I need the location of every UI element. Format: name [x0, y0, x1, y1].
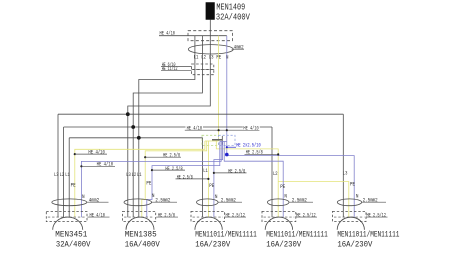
supply block Q0 MEN1409 [206, 3, 215, 20]
svg-text:MEN11011/MEN11111: MEN11011/MEN11111 [337, 231, 399, 240]
svg-text:L1: L1 [65, 172, 70, 178]
svg-text:L1: L1 [137, 172, 142, 178]
cable ellipse outlet2 [124, 199, 152, 206]
socket box divider outlet1 [48, 216, 86, 218]
svg-text:HE 2.5/12: HE 2.5/12 [296, 212, 316, 218]
svg-text:HE 2.5/8: HE 2.5/8 [228, 168, 245, 174]
socket arc outlet1 [53, 217, 83, 230]
bus L3 (top distribution line) [58, 113, 343, 115]
svg-text:MEN3451: MEN3451 [55, 231, 87, 240]
svg-text:HE 4/10: HE 4/10 [243, 125, 258, 131]
wire N to outlet3 (blue) [214, 142, 223, 218]
svg-text:L3: L3 [209, 54, 214, 60]
junction node bus3/L1 [137, 136, 141, 140]
wire bus1 to outlet5 L3 [342, 114, 344, 217]
wire N to outlet4 (blue) [224, 142, 283, 218]
label HE 4/10 (N riser) [243, 125, 260, 130]
svg-text:PE: PE [71, 183, 76, 189]
socket box outlet1 (dashed) [46, 211, 87, 221]
svg-text:L1: L1 [194, 54, 199, 60]
svg-text:MEN11011/MEN11111: MEN11011/MEN11111 [266, 231, 328, 240]
wire bus1 to outlet1 L3 [57, 114, 59, 217]
cable ellipse 4mm2 feeder [188, 45, 233, 54]
svg-text:N: N [215, 194, 218, 200]
wire bus3 to outlet3 L1 [202, 138, 204, 218]
wire supply drop [209, 20, 211, 36]
svg-text:PE: PE [350, 181, 355, 187]
terminal bar [212, 139, 222, 141]
svg-text:HE 2.5/8: HE 2.5/8 [246, 150, 263, 156]
svg-text:16A/230V: 16A/230V [195, 241, 230, 250]
wire L1 phase (staircase to bus3 and outlet2) [139, 36, 195, 218]
svg-text:HE 2.5/8: HE 2.5/8 [177, 174, 193, 180]
svg-text:32A/400V: 32A/400V [56, 241, 91, 250]
PE block internal connector (yellow) [205, 140, 219, 142]
socket arc outlet3 [195, 217, 222, 230]
svg-text:16A/400V: 16A/400V [125, 241, 160, 250]
label HE 2.5/8 (outlet5 feed) with leader [245, 150, 264, 154]
cable ellipse outlet3 [197, 199, 219, 206]
socket arc outlet4 [265, 217, 292, 230]
svg-text:L2: L2 [132, 172, 137, 178]
svg-text:L2: L2 [273, 171, 278, 177]
svg-text:N: N [356, 193, 359, 199]
terminal block wire stub [221, 136, 223, 145]
svg-text:16A/230V: 16A/230V [266, 241, 301, 250]
socket box outlet2 (dashed) [123, 211, 156, 221]
svg-text:PE: PE [146, 181, 151, 187]
svg-text:HE 2.5/8: HE 2.5/8 [158, 212, 175, 218]
label HE 2x2.5/10 (blue) with leader [226, 146, 228, 148]
svg-text:HE 4/10: HE 4/10 [90, 212, 106, 218]
label HE 4/10 (PE riser) [186, 125, 204, 130]
svg-text:MEN11011/MEN11111: MEN11011/MEN11111 [195, 231, 257, 240]
socket box outlet4 (dashed) [262, 211, 296, 221]
socket arc outlet2 [126, 217, 154, 230]
wire L2 phase (staircase to bus2 and outlet2) [133, 36, 202, 218]
junction node bus2/L2 [131, 125, 135, 129]
bus L1 (lower distribution line) [69, 137, 202, 139]
svg-text:N: N [82, 194, 85, 200]
cable ellipse outlet5 [337, 199, 361, 206]
label HE 2.5/8 (outlet3 N) with leader [213, 172, 215, 174]
wire N to outlet1 (blue) [81, 142, 221, 218]
svg-text:MEN1409: MEN1409 [216, 3, 245, 13]
wire bus3 to outlet1 L1 [68, 138, 70, 218]
socket arc outlet5 [337, 217, 364, 230]
wire PE branch outlet4 to outlet5 (yellow) [278, 182, 349, 218]
junction box HE 4/10 (dashed) [188, 31, 233, 41]
svg-text:N: N [152, 193, 155, 199]
socket box outlet3 (dashed) [191, 211, 225, 221]
wire N to outlet2 (blue) [147, 142, 220, 218]
wire PE to outlet2 (yellow) [142, 141, 207, 217]
wire bus2 to outlet1 L2 [63, 127, 65, 217]
N terminal block (blue dashed) [219, 135, 236, 145]
svg-text:HE 4/10: HE 4/10 [88, 150, 105, 156]
svg-text:HE 2.5/8: HE 2.5/8 [165, 166, 182, 172]
junction box HE 11/12 (dashed) [192, 70, 214, 75]
svg-text:L3: L3 [54, 172, 59, 178]
wire N to outlet5 (blue) [227, 156, 354, 218]
svg-text:MEN1385: MEN1385 [125, 231, 157, 240]
svg-text:L2: L2 [60, 172, 65, 178]
svg-text:16A/230V: 16A/230V [337, 241, 372, 250]
label HE 4/10 (outlet1 PE) with leader [74, 153, 76, 155]
bus L2 (middle distribution line) [64, 126, 272, 128]
svg-text:L3: L3 [126, 172, 131, 178]
svg-text:PE: PE [209, 183, 214, 189]
svg-text:L1: L1 [203, 168, 208, 174]
socket box outlet5 (dashed) [333, 211, 367, 221]
svg-text:L3: L3 [343, 170, 348, 176]
svg-text:HE 2.5/8: HE 2.5/8 [163, 153, 180, 159]
svg-text:HE 11/12: HE 11/12 [162, 66, 178, 72]
svg-text:32A/400V: 32A/400V [216, 13, 250, 23]
cable ellipse outlet1 [52, 199, 87, 206]
svg-text:L2: L2 [201, 54, 206, 60]
N block internal connector (blue) [220, 141, 227, 143]
PE terminal block (green dashed) [202, 135, 219, 145]
wire PE to outlet1 (yellow) [75, 141, 205, 217]
socket box divider outlet3 [193, 216, 224, 218]
svg-text:PE: PE [280, 184, 285, 190]
svg-text:HE 2.5/12: HE 2.5/12 [226, 212, 246, 218]
leader dot on N riser [226, 129, 228, 131]
cable ellipse outlet4 [267, 199, 289, 206]
leader line PE/N risers [185, 129, 260, 131]
socket box divider outlet5 [334, 216, 365, 218]
leader dot on PE riser [218, 129, 220, 131]
wire PE to outlet4 (yellow) [216, 141, 278, 217]
svg-text:HE 2.5/12: HE 2.5/12 [367, 212, 387, 218]
junction node bus1/L3 [126, 112, 130, 116]
busbar node in junction box [195, 35, 227, 37]
socket box divider outlet2 [124, 216, 154, 218]
label HE 4/10 (outlet1 N) with leader [80, 165, 82, 167]
socket box divider outlet4 [264, 216, 295, 218]
svg-text:N: N [284, 193, 287, 199]
wire N main (blue) [226, 36, 228, 156]
wire PE to outlet3 (yellow) [207, 141, 209, 217]
wire PE main (yellow) [218, 36, 220, 141]
svg-text:HE 2x2.5/10: HE 2x2.5/10 [236, 143, 261, 149]
wire L3 phase (staircase to bus1 and outlet2) [128, 36, 211, 218]
svg-text:HE 4/10: HE 4/10 [97, 162, 114, 168]
wire bus2 to outlet4 L2 [271, 127, 273, 217]
label HE 2.5/8 (outlet2 PE) with leader [144, 156, 146, 158]
junction box HE 6/10 (dashed) [192, 64, 214, 70]
junction node N (blue dot) [225, 153, 229, 157]
label HE 2.5/8 (outlet2 N) with leader [151, 169, 153, 171]
